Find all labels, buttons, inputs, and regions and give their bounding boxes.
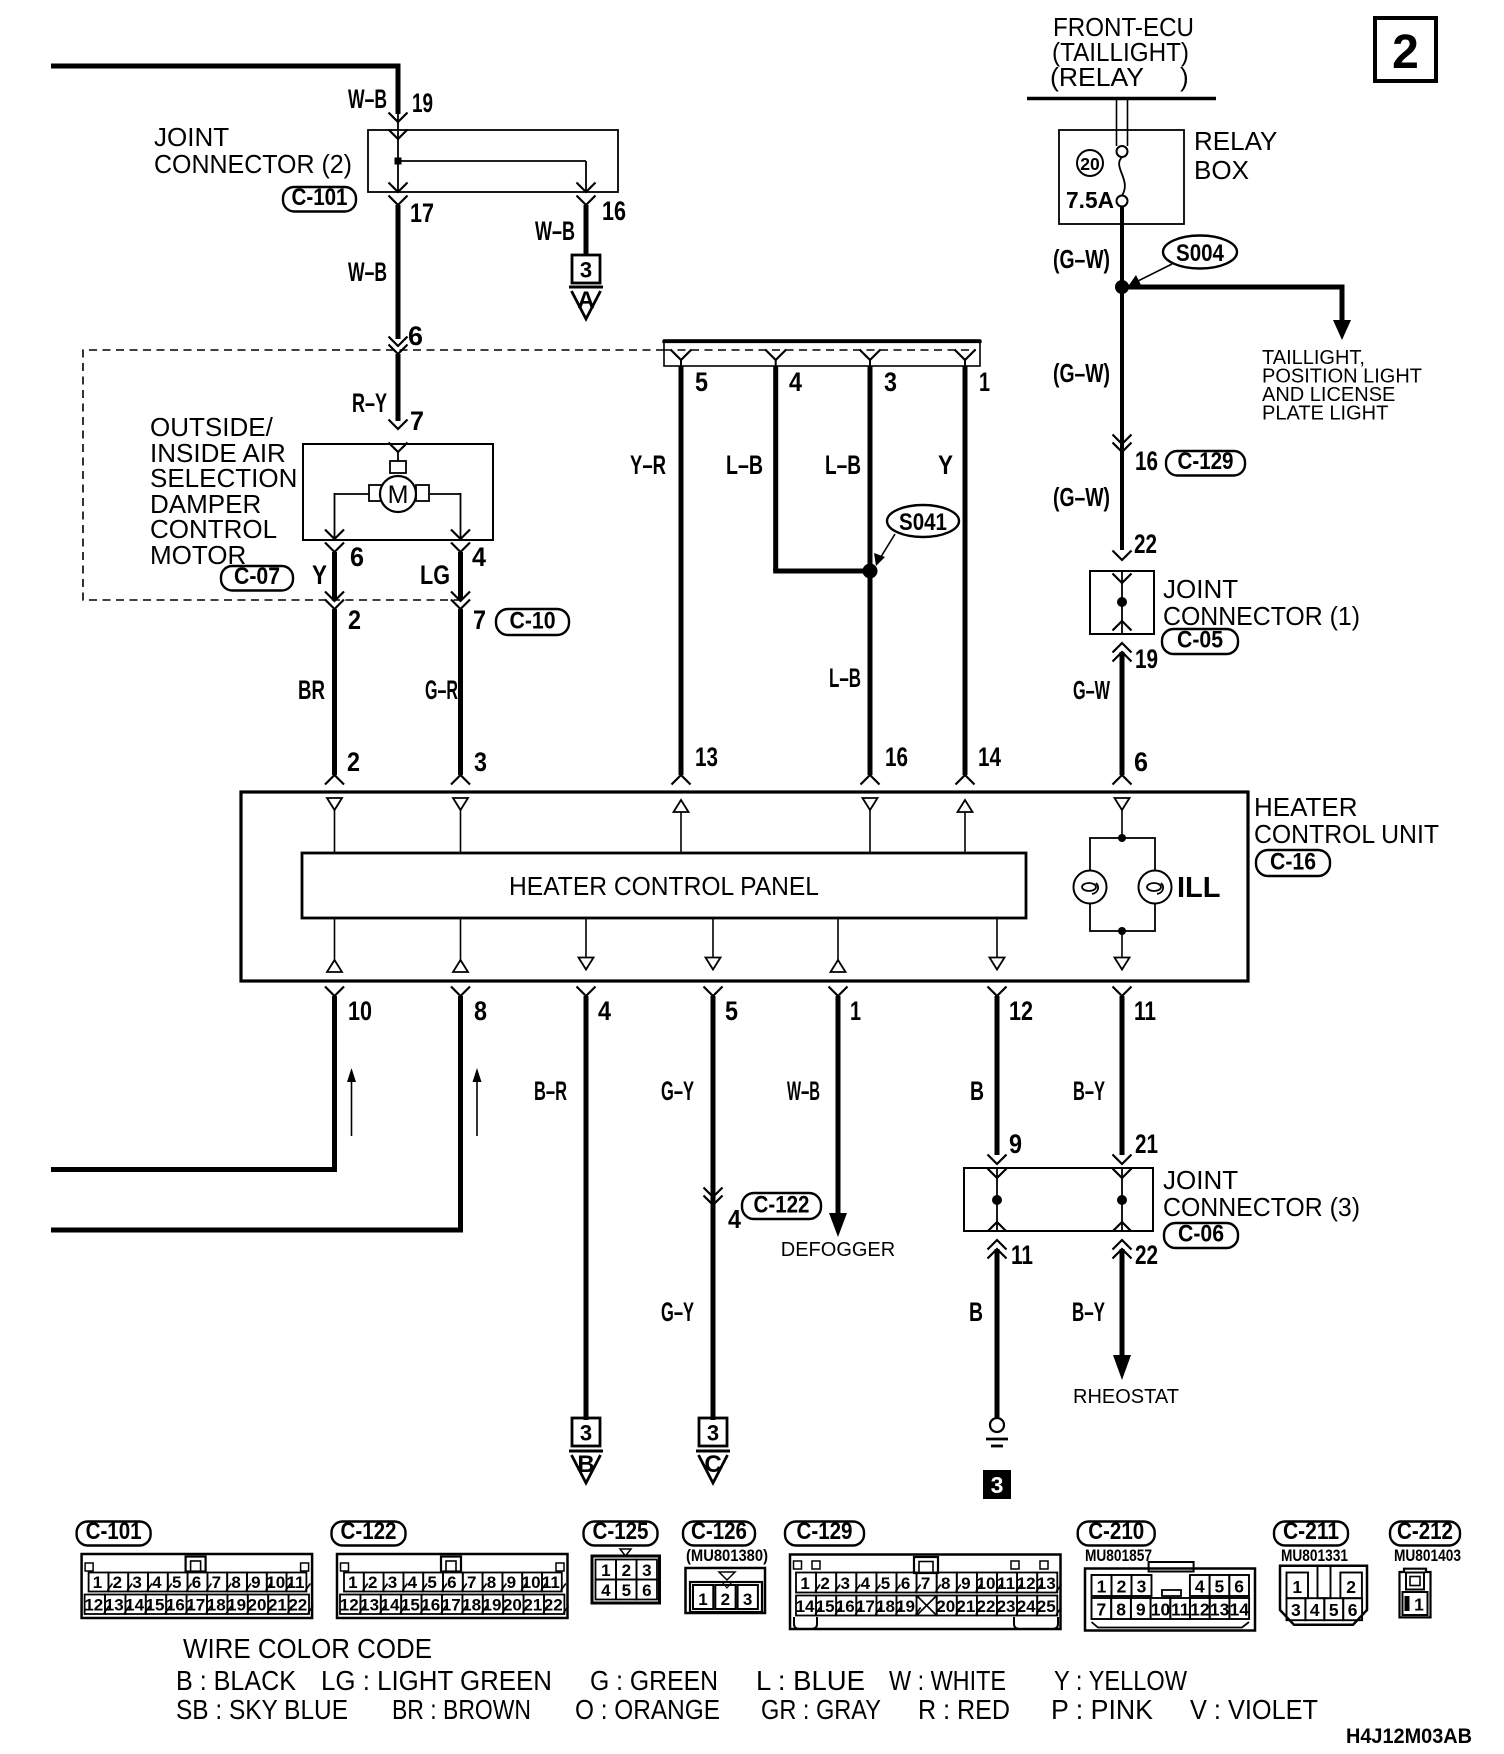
- bottom output arrow x=460.5: [453, 918, 468, 972]
- svg-text:2: 2: [113, 1573, 122, 1592]
- svg-text:11: 11: [1171, 1600, 1190, 1620]
- arrow to taillight: [1333, 320, 1351, 340]
- pin 19 terminal fork: [389, 113, 408, 123]
- connector bar box: [662, 340, 981, 366]
- svg-text:6: 6: [1134, 747, 1148, 777]
- svg-text:Y–R: Y–R: [630, 450, 666, 480]
- pin 8 label: [474, 996, 487, 1026]
- pin 12 label: [1009, 996, 1033, 1026]
- JC3 right node: [1117, 1195, 1127, 1205]
- svg-text:15: 15: [401, 1596, 420, 1615]
- svg-text:21: 21: [523, 1596, 542, 1615]
- label L-B (pin3): [825, 450, 861, 480]
- svg-text:JOINT: JOINT: [1163, 1165, 1238, 1195]
- svg-text:B–R: B–R: [534, 1076, 567, 1106]
- label G-R: [425, 675, 458, 705]
- svg-text:16: 16: [166, 1596, 185, 1615]
- label JOINT CONNECTOR (3): [1163, 1165, 1360, 1222]
- JC3 left node: [992, 1195, 1002, 1205]
- pin 19 label: [412, 88, 433, 118]
- pin 22 label (C-06): [1135, 1240, 1158, 1270]
- wire taillight branch: [1120, 285, 1343, 322]
- inter-system 3 (black): [983, 1470, 1011, 1499]
- svg-text:19: 19: [227, 1596, 246, 1615]
- wire arrow to panel x=334.5: [334, 810, 336, 853]
- bar pin 4 fork: [765, 350, 786, 367]
- label 7.5A: [1066, 187, 1114, 213]
- svg-text:G : GREEN: G : GREEN: [590, 1665, 718, 1696]
- svg-text:BR: BR: [298, 675, 325, 705]
- svg-text:(G–W): (G–W): [1053, 244, 1110, 274]
- svg-text:3: 3: [474, 747, 487, 777]
- svg-text:8: 8: [474, 996, 487, 1026]
- svg-text:22: 22: [544, 1596, 563, 1615]
- pin 3 label (heater): [474, 747, 487, 777]
- svg-text:12: 12: [340, 1596, 359, 1615]
- pin 4 fork (heater bottom): [577, 987, 596, 997]
- C-129 crossing forks: [1113, 435, 1132, 453]
- svg-text:Y: Y: [312, 560, 327, 590]
- svg-text:JOINT: JOINT: [1163, 574, 1238, 604]
- svg-text:B: B: [970, 1076, 984, 1106]
- label DEFOGGER: [781, 1239, 895, 1261]
- pin 10 fork (heater bottom): [325, 987, 344, 997]
- pin 22 label: [1134, 529, 1157, 559]
- svg-text:GR : GRAY: GR : GRAY: [761, 1694, 881, 1725]
- svg-text:1: 1: [93, 1573, 102, 1592]
- pin 2 label (heater): [347, 747, 360, 777]
- wire G-W down: [1120, 287, 1124, 550]
- motor M1 terminal tabs: [369, 461, 429, 501]
- svg-text:3: 3: [580, 1421, 592, 1446]
- label G-W: [1073, 675, 1110, 705]
- svg-text:(RELAY: (RELAY: [1050, 62, 1144, 92]
- pin 4 label (C-122): [728, 1204, 741, 1234]
- svg-text:23: 23: [997, 1597, 1016, 1616]
- label W-B (pin 17 wire): [348, 257, 387, 287]
- svg-text:B : BLACK: B : BLACK: [176, 1665, 297, 1696]
- svg-text:16: 16: [836, 1597, 855, 1616]
- svg-text:V : VIOLET: V : VIOLET: [1190, 1694, 1318, 1725]
- label ILL: [1177, 872, 1221, 904]
- bar pin 3 label: [884, 367, 897, 397]
- connector C-211 pinout: [1280, 1546, 1367, 1625]
- svg-text:2: 2: [820, 1574, 829, 1593]
- arrow S004 to node: [1129, 264, 1172, 285]
- svg-text:HEATER CONTROL PANEL: HEATER CONTROL PANEL: [509, 871, 819, 901]
- svg-text:B: B: [577, 1451, 594, 1478]
- relay box: [1059, 130, 1184, 224]
- connector ref C-07: [221, 563, 293, 591]
- svg-text:14: 14: [1230, 1600, 1250, 1620]
- ILL lamp right: [1139, 871, 1172, 904]
- svg-text:R : RED: R : RED: [918, 1694, 1010, 1725]
- svg-text:4: 4: [408, 1573, 418, 1592]
- svg-text:24: 24: [1017, 1597, 1036, 1616]
- svg-text:C-125: C-125: [593, 1518, 649, 1545]
- arrow to rheostat: [1113, 1355, 1131, 1380]
- pin 6 double fork: [389, 337, 408, 355]
- label BR: [298, 675, 325, 705]
- svg-text:H4J12M03AB: H4J12M03AB: [1346, 1725, 1472, 1748]
- svg-text:2: 2: [348, 605, 361, 635]
- pin 6 label (C-07): [350, 542, 364, 572]
- dashed boundary (damper motor system): [83, 350, 664, 600]
- bar pin 5 label: [695, 367, 708, 397]
- label (G-W) 2: [1053, 358, 1110, 388]
- svg-text:4: 4: [1310, 1600, 1320, 1620]
- svg-text:14: 14: [978, 742, 1001, 772]
- node junction inside C-101: [395, 158, 402, 165]
- heater control panel box: [302, 853, 1026, 918]
- label RHEOSTAT: [1073, 1386, 1179, 1408]
- svg-text:11: 11: [1011, 1240, 1033, 1270]
- svg-text:WIRE COLOR CODE: WIRE COLOR CODE: [183, 1633, 432, 1664]
- C-10 crossing forks left: [325, 592, 344, 610]
- svg-text:4: 4: [598, 996, 611, 1026]
- label W-B (pin 16 wire): [535, 216, 575, 246]
- pin 21 label: [1135, 1129, 1158, 1159]
- pin 16 inner fork: [577, 183, 596, 193]
- label Y (pin1): [938, 450, 953, 480]
- svg-text:9: 9: [961, 1574, 970, 1593]
- pin 5 label (heater): [725, 996, 738, 1026]
- ILL lamp left: [1074, 871, 1107, 904]
- ILL loop: [1090, 838, 1155, 931]
- svg-text:S041: S041: [899, 509, 947, 536]
- svg-text:SB : SKY BLUE: SB : SKY BLUE: [176, 1694, 348, 1725]
- svg-text:7: 7: [473, 605, 486, 635]
- svg-text:(MU801380): (MU801380): [686, 1546, 768, 1565]
- wire Y segment: [332, 552, 337, 600]
- svg-text:C-06: C-06: [1178, 1221, 1224, 1248]
- connector ref C-101: [283, 184, 356, 212]
- node S041: [863, 564, 878, 579]
- pin 11 label (C-06): [1011, 1240, 1033, 1270]
- wire L-B (pin4) to junction: [773, 569, 870, 574]
- drawing number H4J12M03AB: [1346, 1725, 1472, 1748]
- ILL wire to pin 11: [1115, 931, 1130, 970]
- label FRONT-ECU (TAILLIGHT RELAY): [1050, 12, 1194, 92]
- inter-system box 3 (B): [572, 1418, 600, 1446]
- motor pin 4 forks: [451, 530, 470, 553]
- output arrow at x=681: [674, 800, 689, 853]
- svg-text:17: 17: [856, 1597, 875, 1616]
- svg-text:15: 15: [146, 1596, 165, 1615]
- svg-text:22: 22: [976, 1597, 995, 1616]
- connector ref C-210 (pinout label): [1078, 1518, 1155, 1546]
- fuse 20 circle: [1077, 150, 1103, 176]
- svg-text:3: 3: [991, 1472, 1004, 1498]
- connector C-126 pinout: [686, 1546, 769, 1613]
- svg-text:G–Y: G–Y: [661, 1297, 694, 1327]
- connector ref C-101 (pinout label): [77, 1518, 151, 1546]
- svg-text:PLATE LIGHT: PLATE LIGHT: [1262, 403, 1388, 425]
- svg-text:C-05: C-05: [1177, 627, 1223, 654]
- JC1 inner fork top: [1113, 574, 1132, 584]
- wire motor left lead: [335, 493, 370, 538]
- svg-text:4: 4: [789, 367, 802, 397]
- wire B lower: [995, 1249, 1000, 1417]
- inter-system box 3 (A): [572, 255, 600, 283]
- svg-text:18: 18: [876, 1597, 895, 1616]
- svg-text:19: 19: [412, 88, 433, 118]
- svg-text:W–B: W–B: [535, 216, 575, 246]
- wire B-Y lower: [1120, 1249, 1125, 1356]
- svg-text:4: 4: [728, 1204, 741, 1234]
- pin 16 label: [602, 196, 626, 226]
- svg-text:B: B: [969, 1297, 983, 1327]
- connector C-101 pinout: [82, 1554, 313, 1618]
- svg-text:): ): [1180, 62, 1189, 92]
- svg-text:3: 3: [884, 367, 897, 397]
- wire inside C-101: [397, 131, 399, 192]
- svg-text:18: 18: [462, 1596, 481, 1615]
- JC1 inner wire: [1121, 571, 1123, 634]
- node S004: [1115, 280, 1129, 294]
- svg-text:HEATER: HEATER: [1254, 792, 1358, 822]
- svg-text:17: 17: [186, 1596, 205, 1615]
- svg-text:12: 12: [1190, 1600, 1210, 1620]
- svg-text:2: 2: [347, 747, 360, 777]
- svg-text:5: 5: [172, 1573, 181, 1592]
- svg-text:1: 1: [850, 996, 861, 1026]
- inter-system triangle C: [696, 1451, 730, 1483]
- svg-text:O : ORANGE: O : ORANGE: [575, 1694, 720, 1725]
- svg-text:(G–W): (G–W): [1053, 482, 1110, 512]
- page number box 2: [1375, 18, 1436, 81]
- svg-text:1: 1: [800, 1574, 809, 1593]
- label W-B (defogger): [787, 1076, 820, 1106]
- svg-text:1: 1: [1292, 1577, 1302, 1597]
- svg-text:9: 9: [1009, 1129, 1022, 1159]
- wire B-R: [584, 996, 589, 1420]
- svg-text:14: 14: [125, 1596, 144, 1615]
- svg-text:10: 10: [266, 1573, 285, 1592]
- svg-text:(G–W): (G–W): [1053, 358, 1110, 388]
- svg-text:1: 1: [348, 1573, 357, 1592]
- inter-system triangle B: [569, 1451, 603, 1483]
- bar pin 1 label: [979, 367, 990, 397]
- svg-text:ILL: ILL: [1177, 872, 1221, 904]
- pin 6 fork (heater): [1113, 775, 1132, 785]
- svg-text:18: 18: [207, 1596, 226, 1615]
- svg-text:M: M: [388, 481, 409, 509]
- svg-text:16: 16: [602, 196, 626, 226]
- pin 4 label (heater): [598, 996, 611, 1026]
- pin 3 fork at heater: [451, 775, 470, 785]
- label (G-W) 1: [1053, 244, 1110, 274]
- svg-text:10: 10: [1151, 1600, 1171, 1620]
- svg-text:5: 5: [427, 1573, 436, 1592]
- svg-text:20: 20: [248, 1596, 267, 1615]
- svg-text:5: 5: [622, 1581, 631, 1600]
- svg-text:20: 20: [1080, 154, 1100, 174]
- connector C-129 pinout: [790, 1555, 1061, 1630]
- svg-text:3: 3: [707, 1421, 719, 1446]
- pin 7 label (C-10): [473, 605, 486, 635]
- label G-Y lower: [661, 1297, 694, 1327]
- label HEATER CONTROL UNIT: [1254, 792, 1439, 849]
- inter-system box 3 (C): [699, 1418, 727, 1446]
- wire W-B defogger: [836, 996, 841, 1214]
- svg-text:2: 2: [622, 1561, 631, 1580]
- svg-text:3: 3: [132, 1573, 141, 1592]
- svg-text:3: 3: [743, 1590, 752, 1609]
- wire to motor: [397, 452, 399, 461]
- svg-text:19: 19: [483, 1596, 502, 1615]
- svg-text:Y : YELLOW: Y : YELLOW: [1054, 1665, 1187, 1696]
- connector ref C-122 (pinout label): [332, 1518, 406, 1546]
- pin 2 label (C-10): [348, 605, 361, 635]
- wire LG segment: [458, 552, 463, 600]
- pin 16 outer fork: [577, 196, 596, 206]
- svg-text:22: 22: [288, 1596, 307, 1615]
- svg-text:C-16: C-16: [1270, 849, 1316, 876]
- svg-text:5: 5: [725, 996, 738, 1026]
- pin 19 inner fork: [389, 130, 408, 140]
- svg-text:21: 21: [1135, 1129, 1158, 1159]
- pin 12 fork (heater bottom): [988, 987, 1007, 997]
- wire pin 8 to edge: [51, 996, 461, 1230]
- pin 11 fork (heater bottom): [1113, 987, 1132, 997]
- svg-text:21: 21: [268, 1596, 287, 1615]
- bottom input arrow x=586: [579, 918, 594, 970]
- pin 14 label: [978, 742, 1001, 772]
- wire R-Y: [396, 354, 401, 421]
- svg-text:17: 17: [410, 198, 434, 228]
- output arrow at x=965: [958, 800, 973, 853]
- svg-text:16: 16: [1135, 446, 1158, 476]
- svg-text:1: 1: [698, 1590, 707, 1609]
- svg-text:7: 7: [212, 1573, 221, 1592]
- svg-text:16: 16: [885, 742, 908, 772]
- pin 4 label (C-07): [472, 542, 486, 572]
- pin 16 label (heater): [885, 742, 908, 772]
- svg-text:6: 6: [1234, 1577, 1244, 1597]
- label B-R: [534, 1076, 567, 1106]
- svg-text:21: 21: [956, 1597, 975, 1616]
- svg-text:2: 2: [1346, 1577, 1356, 1597]
- wire BR: [332, 609, 337, 775]
- svg-text:11: 11: [542, 1573, 560, 1592]
- wire color code line 2: [176, 1694, 1318, 1725]
- svg-text:R–Y: R–Y: [352, 388, 387, 418]
- input arrow at x=334.5: [327, 798, 342, 810]
- ground G01: [986, 1418, 1008, 1446]
- svg-text:22: 22: [1134, 529, 1157, 559]
- wire G-W fuse to S004: [1120, 207, 1124, 288]
- wire jumper to pin 16: [398, 161, 586, 192]
- connector ref C-129 (inline): [1166, 448, 1245, 476]
- connector ref C-129 (pinout label): [785, 1518, 864, 1546]
- svg-text:LG: LG: [420, 560, 450, 590]
- pin 1 label (heater): [850, 996, 861, 1026]
- svg-text:3: 3: [841, 1574, 850, 1593]
- svg-text:BOX: BOX: [1194, 155, 1249, 185]
- bottom input arrow x=713: [706, 918, 721, 970]
- svg-text:25: 25: [1037, 1597, 1056, 1616]
- JC1 inner fork bottom: [1113, 621, 1132, 631]
- svg-text:C-101: C-101: [86, 1518, 142, 1545]
- connector ref C-06: [1164, 1221, 1238, 1249]
- bar pin 3 fork: [860, 350, 881, 367]
- svg-text:6: 6: [192, 1573, 201, 1592]
- wire L-B (pin3): [868, 366, 873, 775]
- joint connector (3) C-06 box: [964, 1168, 1153, 1231]
- svg-text:10: 10: [976, 1574, 995, 1593]
- C-122 crossing forks: [704, 1188, 723, 1206]
- svg-text:19: 19: [896, 1597, 915, 1616]
- svg-text:C-211: C-211: [1283, 1518, 1339, 1545]
- pin 11 forks (C-06): [988, 1240, 1007, 1259]
- label R-Y: [352, 388, 387, 418]
- label B: [970, 1076, 984, 1106]
- joint connector (1) C-05 box: [1090, 571, 1154, 634]
- pin 17 outer fork: [389, 196, 408, 206]
- connector C-122 pinout: [337, 1554, 568, 1618]
- svg-text:4: 4: [472, 542, 486, 572]
- bar pin 1 fork: [955, 350, 976, 367]
- svg-text:C-122: C-122: [341, 1518, 397, 1545]
- pin 11 label: [1134, 996, 1156, 1026]
- motor M1 symbol: [380, 476, 416, 512]
- svg-text:B–Y: B–Y: [1072, 1297, 1105, 1327]
- svg-text:W–B: W–B: [787, 1076, 820, 1106]
- pin 7 fork: [389, 420, 408, 430]
- svg-text:3: 3: [1291, 1600, 1301, 1620]
- svg-text:7.5A: 7.5A: [1066, 187, 1114, 213]
- pin 2 fork at heater: [325, 775, 344, 785]
- svg-text:C-07: C-07: [234, 563, 280, 590]
- svg-text:2: 2: [1117, 1577, 1127, 1597]
- connector C-125 pinout: [592, 1549, 660, 1603]
- connector ref C-16: [1256, 849, 1330, 877]
- label W-B (pin 19 wire): [348, 84, 387, 114]
- svg-text:C: C: [704, 1451, 721, 1478]
- bottom output arrow x=838: [831, 918, 846, 972]
- label B-Y: [1073, 1076, 1105, 1106]
- splice label S004: [1163, 236, 1237, 269]
- joint connector (2) C-101 box: [368, 130, 618, 192]
- bottom input arrow x=997: [990, 918, 1005, 970]
- pin 13 label: [695, 742, 718, 772]
- arrow S041 to node: [874, 534, 895, 566]
- pin 22 forks (C-06): [1113, 1240, 1132, 1259]
- svg-text:L–B: L–B: [726, 450, 763, 480]
- svg-text:C-210: C-210: [1088, 1518, 1144, 1545]
- damper motor box C-07: [303, 444, 493, 540]
- ILL bottom node: [1118, 927, 1126, 935]
- wire W-B trunk from left edge: [51, 64, 398, 131]
- bottom output arrow x=334.5: [327, 918, 342, 972]
- svg-text:2: 2: [1392, 26, 1419, 79]
- pin 16 label (C-129): [1135, 446, 1158, 476]
- input arrow at x=1122: [1115, 798, 1130, 810]
- connector ref C-211 (pinout label): [1274, 1518, 1348, 1546]
- svg-text:CONNECTOR (3): CONNECTOR (3): [1163, 1192, 1360, 1222]
- svg-text:3: 3: [580, 258, 592, 283]
- label L-B lower: [829, 663, 861, 693]
- svg-text:20: 20: [936, 1597, 955, 1616]
- pin 1 fork (heater bottom): [829, 987, 848, 997]
- wire W-B to connector A: [584, 205, 589, 256]
- connector ref C-125 (pinout label): [584, 1518, 658, 1546]
- svg-text:22: 22: [1135, 1240, 1158, 1270]
- svg-text:7: 7: [467, 1573, 476, 1592]
- svg-text:W : WHITE: W : WHITE: [889, 1665, 1006, 1696]
- connector ref C-122 (inline): [742, 1192, 821, 1220]
